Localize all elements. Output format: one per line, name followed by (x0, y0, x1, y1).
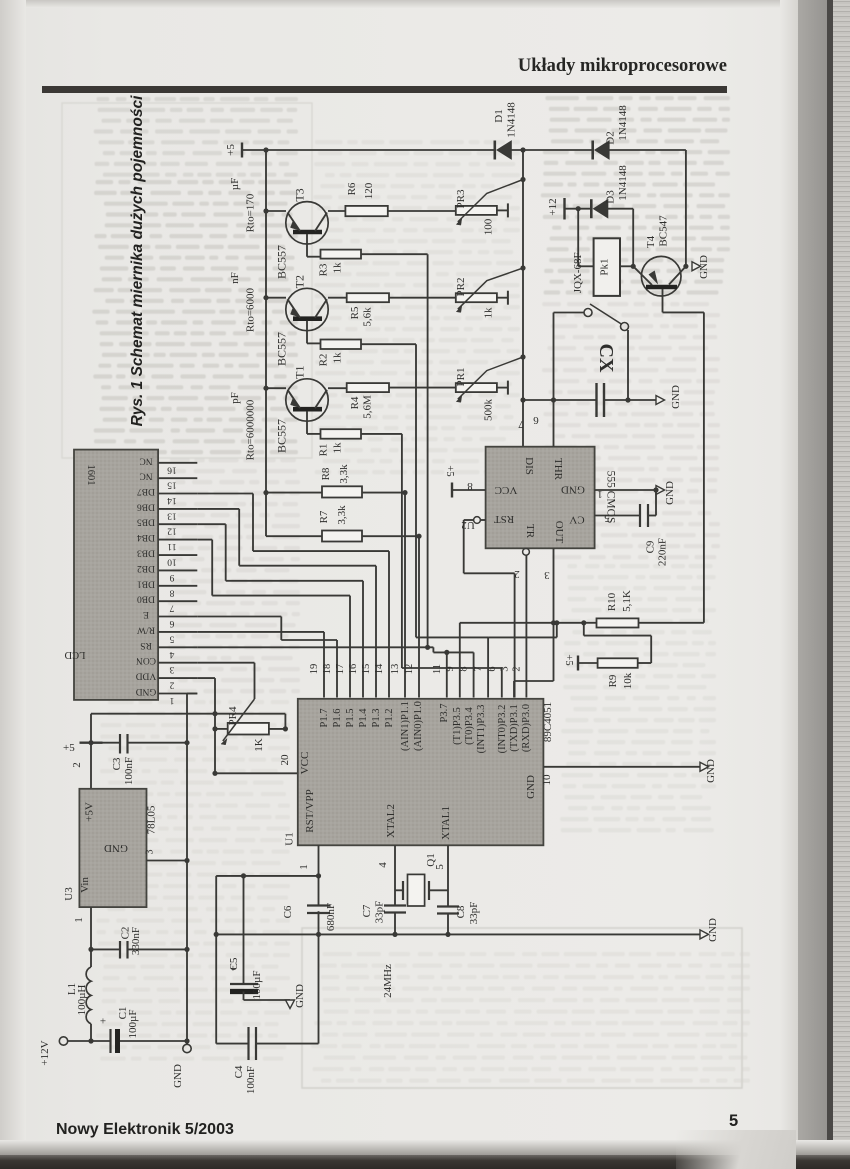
svg-text:2: 2 (169, 680, 174, 690)
svg-text:2: 2 (71, 762, 83, 768)
svg-text:1: 1 (169, 695, 174, 705)
svg-text:5,1K: 5,1K (621, 590, 633, 612)
svg-text:P1.2: P1.2 (384, 709, 395, 728)
svg-text:BC557: BC557 (275, 245, 289, 279)
svg-text:T3: T3 (293, 188, 307, 201)
svg-text:P1.6: P1.6 (332, 709, 343, 728)
svg-text:10k: 10k (622, 672, 634, 689)
svg-text:14: 14 (374, 663, 385, 674)
svg-text:P1.5: P1.5 (345, 709, 356, 728)
svg-text:220nF: 220nF (657, 538, 669, 566)
svg-text:R10: R10 (606, 592, 618, 611)
svg-text:C4: C4 (233, 1065, 245, 1078)
svg-text:DB6: DB6 (137, 501, 155, 511)
svg-text:18: 18 (322, 664, 333, 675)
svg-text:16: 16 (348, 664, 359, 675)
svg-text:20: 20 (279, 754, 291, 766)
svg-text:7: 7 (473, 666, 484, 671)
svg-text:9: 9 (169, 572, 174, 582)
svg-text:680nF: 680nF (325, 903, 337, 931)
svg-text:U3: U3 (63, 887, 75, 901)
svg-text:R7: R7 (318, 510, 330, 523)
svg-text:(AIN0)P1.0: (AIN0)P1.0 (413, 701, 424, 751)
svg-text:PR1: PR1 (455, 368, 467, 387)
svg-text:Rys. 1 Schemat miernika dużych: Rys. 1 Schemat miernika dużych pojemnośc… (129, 95, 146, 426)
svg-text:13: 13 (167, 510, 177, 520)
svg-text:6: 6 (533, 414, 539, 426)
svg-text:nF: nF (229, 272, 241, 284)
svg-text:1601: 1601 (85, 465, 96, 486)
svg-text:100nF: 100nF (123, 757, 135, 785)
svg-text:DB5: DB5 (137, 517, 155, 527)
svg-text:1k: 1k (483, 307, 495, 319)
svg-text:4: 4 (377, 862, 389, 868)
svg-text:XTAL2: XTAL2 (385, 804, 397, 838)
svg-text:T1: T1 (293, 366, 307, 379)
svg-text:P1.4: P1.4 (358, 708, 369, 728)
svg-text:NC: NC (139, 455, 152, 465)
svg-text:PR3: PR3 (455, 189, 467, 208)
svg-text:BC557: BC557 (275, 419, 289, 453)
svg-text:CV: CV (569, 514, 584, 526)
svg-text:3: 3 (500, 666, 511, 671)
svg-text:89C4051: 89C4051 (542, 702, 554, 742)
svg-text:16: 16 (167, 464, 177, 474)
svg-text:GND: GND (525, 775, 537, 799)
svg-text:DIS: DIS (523, 457, 535, 475)
svg-text:DB1: DB1 (137, 578, 155, 588)
svg-text:BC557: BC557 (275, 332, 289, 366)
svg-text:2: 2 (511, 666, 522, 671)
svg-text:GND: GND (705, 759, 717, 783)
svg-text:15: 15 (167, 480, 177, 490)
svg-text:+12: +12 (547, 198, 559, 215)
svg-text:+5: +5 (63, 742, 75, 754)
svg-text:1K: 1K (253, 738, 265, 752)
svg-text:100µF: 100µF (127, 1010, 139, 1039)
svg-text:12: 12 (167, 526, 177, 536)
svg-text:1k: 1k (332, 352, 344, 364)
svg-text:(T1)P3.5: (T1)P3.5 (452, 707, 463, 745)
svg-text:3: 3 (169, 664, 174, 674)
svg-text:Rto=6000: Rto=6000 (245, 287, 257, 332)
svg-text:9: 9 (445, 666, 456, 671)
svg-text:D3: D3 (605, 190, 617, 204)
svg-text:D2: D2 (605, 131, 617, 144)
svg-text:14: 14 (167, 495, 177, 505)
svg-text:24MHz: 24MHz (382, 964, 394, 998)
svg-text:100: 100 (483, 218, 495, 235)
svg-text:VDD: VDD (136, 671, 157, 681)
svg-text:(INT1)P3.3: (INT1)P3.3 (476, 705, 487, 754)
svg-text:GND: GND (561, 484, 585, 496)
svg-text:BC547: BC547 (658, 215, 670, 247)
svg-text:PR2: PR2 (455, 278, 467, 297)
svg-text:8: 8 (169, 587, 174, 597)
svg-text:330nF: 330nF (130, 927, 142, 955)
svg-text:VCC: VCC (495, 484, 518, 496)
svg-text:+5: +5 (225, 144, 237, 156)
svg-text:33pF: 33pF (374, 901, 386, 924)
svg-text:R3: R3 (318, 263, 330, 276)
svg-text:11: 11 (167, 541, 176, 551)
svg-text:NC: NC (139, 471, 152, 481)
svg-text:1N4148: 1N4148 (506, 102, 518, 138)
svg-text:17: 17 (335, 664, 346, 675)
svg-text:µF: µF (229, 178, 241, 190)
svg-text:C8: C8 (455, 905, 467, 918)
svg-text:10: 10 (167, 557, 177, 567)
svg-text:100µF: 100µF (251, 971, 263, 1000)
svg-text:CON: CON (136, 655, 156, 665)
svg-text:E: E (143, 609, 149, 619)
svg-text:pF: pF (229, 392, 241, 404)
svg-text:+5: +5 (563, 654, 574, 665)
svg-text:15: 15 (361, 664, 372, 675)
svg-text:PR4: PR4 (227, 706, 239, 725)
svg-text:R/W: R/W (137, 624, 155, 634)
svg-text:R1: R1 (318, 444, 330, 457)
svg-text:GND: GND (670, 385, 682, 409)
svg-text:7: 7 (518, 418, 524, 430)
svg-text:TR: TR (524, 524, 536, 539)
svg-text:T4: T4 (645, 235, 657, 248)
svg-text:Q1: Q1 (425, 853, 437, 866)
svg-text:P1.7: P1.7 (319, 709, 330, 728)
svg-text:R8: R8 (320, 467, 332, 480)
svg-text:10: 10 (541, 774, 553, 786)
svg-text:4: 4 (169, 649, 174, 659)
svg-text:+5V: +5V (84, 802, 96, 822)
svg-text:(RXD)P3.0: (RXD)P3.0 (521, 704, 532, 752)
svg-text:19: 19 (309, 664, 320, 675)
svg-text:Rto=6000000: Rto=6000000 (245, 399, 257, 460)
svg-text:+: + (100, 1016, 106, 1028)
svg-text:XTAL1: XTAL1 (440, 806, 452, 840)
svg-text:1: 1 (298, 864, 310, 870)
svg-text:Vin: Vin (79, 877, 91, 893)
svg-text:(TXD)P3.1: (TXD)P3.1 (509, 704, 520, 752)
svg-text:5,6M: 5,6M (362, 395, 374, 419)
svg-text:R9: R9 (607, 674, 619, 687)
svg-text:T2: T2 (293, 275, 307, 288)
svg-text:78L05: 78L05 (146, 805, 158, 834)
svg-text:120: 120 (363, 182, 375, 199)
svg-text:JQX-68F: JQX-68F (572, 252, 584, 293)
svg-text:1N4148: 1N4148 (617, 105, 629, 141)
svg-text:+12V: +12V (39, 1040, 51, 1065)
svg-text:8: 8 (467, 480, 473, 492)
svg-text:1: 1 (73, 917, 85, 923)
svg-text:(AIN1)P1.1: (AIN1)P1.1 (400, 701, 411, 751)
svg-text:2: 2 (514, 568, 520, 580)
svg-text:5: 5 (604, 512, 610, 524)
svg-text:3,3k: 3,3k (336, 505, 348, 525)
svg-text:C7: C7 (361, 904, 373, 917)
svg-text:DB7: DB7 (137, 486, 155, 496)
svg-text:DB4: DB4 (137, 532, 155, 542)
svg-text:5,6k: 5,6k (362, 307, 374, 327)
svg-text:33pF: 33pF (468, 902, 480, 925)
svg-text:C3: C3 (111, 757, 123, 770)
svg-text:DB2: DB2 (137, 563, 155, 573)
svg-text:5: 5 (169, 633, 174, 643)
svg-text:GND: GND (136, 686, 157, 696)
svg-text:RST/VPP: RST/VPP (304, 789, 316, 832)
svg-text:100µH: 100µH (76, 985, 88, 1016)
svg-text:(INT0)P3.2: (INT0)P3.2 (497, 705, 508, 754)
svg-text:RS: RS (140, 640, 152, 650)
svg-text:THR: THR (552, 458, 564, 481)
svg-text:CX: CX (595, 344, 617, 373)
svg-text:GND: GND (104, 842, 128, 854)
svg-text:500k: 500k (483, 399, 495, 422)
svg-text:DB0: DB0 (137, 594, 155, 604)
svg-text:(T0)P3.4: (T0)P3.4 (464, 706, 475, 744)
svg-text:C6: C6 (282, 905, 294, 918)
svg-text:LCD: LCD (64, 649, 85, 660)
svg-text:12: 12 (404, 664, 415, 675)
svg-text:13: 13 (390, 664, 401, 675)
svg-text:+5: +5 (444, 465, 455, 476)
svg-text:U1: U1 (284, 832, 296, 845)
svg-text:3,3k: 3,3k (338, 464, 350, 484)
svg-text:VCC: VCC (299, 752, 311, 775)
svg-text:100nF: 100nF (245, 1066, 257, 1094)
svg-text:6: 6 (169, 618, 174, 628)
svg-text:GND: GND (698, 255, 710, 279)
svg-text:1k: 1k (332, 442, 344, 454)
svg-text:11: 11 (432, 664, 443, 674)
svg-text:GND: GND (172, 1064, 184, 1088)
svg-text:C5: C5 (228, 957, 240, 970)
svg-text:1k: 1k (332, 262, 344, 274)
svg-text:RST: RST (494, 513, 514, 525)
svg-text:OUT: OUT (553, 521, 565, 544)
svg-text:DB3: DB3 (137, 548, 155, 558)
svg-text:7: 7 (169, 603, 174, 613)
svg-text:P1.3: P1.3 (371, 709, 382, 728)
svg-text:1: 1 (597, 488, 603, 500)
svg-text:1N4148: 1N4148 (617, 165, 629, 201)
svg-text:GND: GND (294, 984, 306, 1008)
svg-text:GND: GND (707, 918, 719, 942)
svg-text:Rto=170: Rto=170 (245, 193, 257, 232)
svg-text:GND: GND (664, 481, 676, 505)
svg-text:R6: R6 (346, 182, 358, 195)
svg-text:3: 3 (544, 569, 550, 581)
svg-text:P3.7: P3.7 (439, 704, 450, 723)
svg-text:R2: R2 (318, 354, 330, 367)
svg-text:3: 3 (145, 850, 156, 855)
svg-text:R5: R5 (349, 306, 361, 319)
svg-text:R4: R4 (349, 396, 361, 409)
svg-text:Pk1: Pk1 (599, 258, 611, 275)
svg-text:D1: D1 (493, 109, 505, 122)
svg-text:U2: U2 (461, 519, 474, 531)
svg-text:C9: C9 (645, 540, 657, 553)
